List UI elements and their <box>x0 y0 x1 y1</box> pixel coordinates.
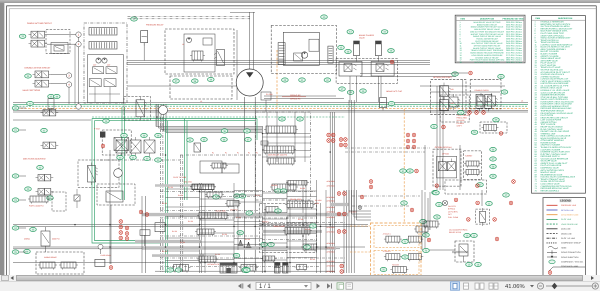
valve V33 <box>270 184 298 192</box>
callout pb6 <box>144 156 151 160</box>
valve V65b <box>406 254 423 262</box>
grey band 1 <box>142 213 349 216</box>
svg-text:PSI 350: PSI 350 <box>271 184 277 187</box>
testpoint TP8 <box>331 133 335 137</box>
testpoint TP27b <box>340 270 344 274</box>
testpoint TP31 <box>495 237 499 241</box>
accumulator A3 <box>380 98 387 111</box>
callout b6 <box>237 231 244 235</box>
relief RV2 <box>74 189 80 208</box>
dashed box center assy <box>271 26 336 74</box>
valve V54 <box>195 229 216 236</box>
svg-text:ATTACHMENT LINE: ATTACHMENT LINE <box>561 214 579 217</box>
svg-text:PILOT LINE: PILOT LINE <box>561 218 572 221</box>
svg-text:RV 3B: RV 3B <box>222 233 228 236</box>
valve V13 <box>371 62 394 77</box>
svg-text:ARM 3900: ARM 3900 <box>327 206 335 209</box>
testpoint TPq4 <box>509 201 513 205</box>
testpoint TP10 <box>331 139 335 143</box>
wire bundle <box>156 104 262 133</box>
wire <box>282 96 306 98</box>
svg-text:RELIEF 45 PSI: RELIEF 45 PSI <box>449 231 462 234</box>
valve V67 <box>422 221 440 229</box>
testpoint TP1 <box>469 71 473 75</box>
callout 27 <box>221 129 228 133</box>
pump P8 <box>187 38 192 43</box>
wire orange <box>350 226 370 252</box>
callout c62 <box>407 169 414 173</box>
svg-text:25 PSI RTN: 25 PSI RTN <box>448 210 458 213</box>
testpoint TP30 <box>467 218 471 222</box>
label cooler <box>449 229 468 235</box>
dashed box cooler <box>455 241 474 262</box>
collapsed side panel strip <box>0 3 5 275</box>
callout pb5 <box>130 155 137 159</box>
svg-text:ITEM: ITEM <box>535 17 540 20</box>
callout 40c <box>299 78 306 82</box>
testpoint TP17 <box>406 139 410 143</box>
vertical comb 1 <box>278 43 285 65</box>
svg-text:ARM 3900: ARM 3900 <box>327 265 335 268</box>
valve V1 <box>29 31 48 38</box>
svg-text:RV 3B: RV 3B <box>310 258 316 261</box>
callout 17 <box>131 17 138 21</box>
svg-text:ROTATE: ROTATE <box>392 263 399 266</box>
valve V35 <box>286 181 309 187</box>
callout b12 <box>233 253 240 257</box>
label test port <box>457 114 470 128</box>
dashed box option B <box>470 80 501 109</box>
callout b4 <box>246 211 253 215</box>
svg-text:PRESS RED: PRESS RED <box>457 117 468 120</box>
box row D <box>97 184 135 205</box>
small comp <box>261 141 268 145</box>
vertical comp bank <box>275 263 288 274</box>
dashed box red vlv <box>480 122 507 133</box>
svg-text:P1: P1 <box>248 152 250 155</box>
dashed box bypass <box>476 209 490 224</box>
zoom dropdown caret <box>530 285 534 287</box>
testpoint TP23 <box>337 212 341 216</box>
testpoint TPlm <box>101 144 105 148</box>
dashed box below block <box>170 76 232 99</box>
svg-text:DESCRIPTION: DESCRIPTION <box>480 18 495 21</box>
valve V11 <box>294 53 303 61</box>
callout 106 <box>503 193 510 197</box>
valve V53 <box>285 201 315 209</box>
callout b10 <box>167 268 174 272</box>
svg-text:TRAVEL 2SPD: TRAVEL 2SPD <box>273 225 286 228</box>
svg-text:PILOT CKT 600: PILOT CKT 600 <box>173 176 186 179</box>
callout 104 <box>475 262 482 266</box>
inner block <box>184 34 215 72</box>
svg-text:ARM 3900: ARM 3900 <box>327 211 335 214</box>
svg-text:DRAIN LINE: DRAIN LINE <box>561 232 572 235</box>
valve V8 <box>89 79 101 87</box>
testpoint TP11 <box>339 138 343 142</box>
testpoint TP7 <box>327 133 331 137</box>
callout 110 <box>401 201 408 205</box>
svg-text:PRESSURE LINE: PRESSURE LINE <box>561 204 577 207</box>
small comp2 <box>261 92 271 112</box>
testpoint TP5 <box>499 132 503 136</box>
page copy icon 2 <box>346 283 352 289</box>
wire <box>19 175 26 177</box>
valve V3 <box>54 46 64 52</box>
valve V36 <box>449 94 460 110</box>
testpoint TP24 <box>343 212 347 216</box>
callout 19 <box>103 119 110 123</box>
callout cc2 <box>201 137 208 141</box>
accumulator A1 <box>354 41 360 62</box>
dashed box option A <box>431 80 466 115</box>
svg-text:PSI MAX: PSI MAX <box>457 122 465 125</box>
svg-text:LS: LS <box>521 100 524 103</box>
enclosure dash wire <box>161 117 163 273</box>
svg-text:SPRING PS: SPRING PS <box>290 98 301 101</box>
stepped boxes <box>200 161 239 173</box>
accumulator A0 <box>141 31 148 46</box>
red micro labels <box>162 186 316 261</box>
callout c61 <box>400 169 407 173</box>
node 3 <box>66 73 71 78</box>
svg-text:ARM 3900: ARM 3900 <box>327 196 335 199</box>
solenoid dark <box>100 132 105 138</box>
valve V4 <box>33 71 52 78</box>
callout edge4 <box>12 226 19 230</box>
grey band 5 <box>452 251 468 253</box>
testpoint TP12 <box>344 138 348 142</box>
node 1 <box>76 32 81 37</box>
inner box grading <box>437 156 457 178</box>
valve V45 <box>38 262 57 270</box>
valve V9 <box>104 79 116 87</box>
svg-text:COMPONENT GROUP: COMPONENT GROUP <box>561 242 581 245</box>
callout 20 <box>27 101 34 105</box>
svg-text:HOSE: HOSE <box>561 246 567 249</box>
node 2 <box>76 42 81 47</box>
svg-text:ARM 3900: ARM 3900 <box>327 251 335 254</box>
valve V42 <box>464 170 481 177</box>
valve V18 <box>114 138 129 151</box>
svg-text:MAIN RELIEF 4200 PSI: MAIN RELIEF 4200 PSI <box>268 154 288 157</box>
svg-text:RV 4350: RV 4350 <box>315 199 322 202</box>
callout 25a <box>25 187 32 191</box>
callout 30 <box>297 117 304 121</box>
testpoint TP4 <box>482 111 486 115</box>
first page button <box>238 283 243 288</box>
last page button <box>327 283 332 288</box>
callout pb2 <box>141 133 148 137</box>
valve V52 <box>264 207 280 214</box>
page copy icon 1 <box>337 283 343 289</box>
svg-text:OIL COOLER BYPASS: OIL COOLER BYPASS <box>449 229 468 232</box>
svg-text:PILOT / LS LINE: PILOT / LS LINE <box>561 237 576 240</box>
testpoint TP26 <box>343 230 347 234</box>
valve V17 <box>136 97 147 120</box>
valve V37a <box>477 93 487 109</box>
callout 25b <box>47 196 54 200</box>
svg-text:PRESSURE RELIEF: PRESSURE RELIEF <box>146 24 164 27</box>
orange sub-box 1 <box>374 226 419 248</box>
pump P6 <box>96 58 101 63</box>
svg-text:ARM 3900: ARM 3900 <box>327 260 335 263</box>
svg-text:ARM 3900: ARM 3900 <box>327 185 335 188</box>
valve V10 <box>190 51 205 62</box>
callout b3 <box>280 189 287 193</box>
svg-text:LS: LS <box>182 43 185 46</box>
testpoint TP3 <box>475 111 479 115</box>
valve V20 <box>36 175 54 181</box>
callout 107b <box>423 233 430 237</box>
valve V58 <box>261 256 277 263</box>
valve V12 <box>339 62 362 77</box>
svg-text:OPTION (SPECIFIC): OPTION (SPECIFIC) <box>433 76 452 79</box>
callout 36 <box>54 94 61 98</box>
svg-text:PIPING CONNECTION: PIPING CONNECTION <box>561 251 581 254</box>
svg-text:CONTINUED LABEL: CONTINUED LABEL <box>561 265 579 268</box>
callout edge3 <box>12 198 19 202</box>
callout 108b <box>423 248 430 252</box>
callout 51b <box>192 79 199 83</box>
svg-text:P1: P1 <box>256 152 258 155</box>
callout b9 <box>244 268 251 272</box>
valve V30 <box>264 126 298 135</box>
callout b14 <box>304 245 311 249</box>
valve V43 <box>28 196 50 204</box>
wire <box>420 86 505 190</box>
testpoint TP18 <box>412 139 416 143</box>
svg-text:MAX FLOW ADJUSTED: MAX FLOW ADJUSTED <box>23 158 46 161</box>
dashed box turret <box>464 151 482 180</box>
testpoint TPr2 <box>476 184 480 188</box>
label oil filter <box>448 205 458 219</box>
dash box travel2 <box>259 226 316 253</box>
drain node <box>98 244 103 254</box>
wire L-corners <box>349 190 371 220</box>
accumulator A2 <box>376 41 382 62</box>
testpoint TP32 <box>410 208 414 212</box>
svg-text:OIL FLTR: OIL FLTR <box>448 205 456 208</box>
svg-text:3600 PSI: 3600 PSI <box>52 238 60 241</box>
green pilot wires <box>92 50 345 273</box>
svg-text:SINGLE ACTING CIRCUIT: SINGLE ACTING CIRCUIT <box>27 22 53 25</box>
valve V64b <box>406 236 423 244</box>
callout edge0 <box>12 106 19 110</box>
orange sub-box 2 <box>374 251 419 275</box>
valve V31 <box>262 146 296 155</box>
grey band 4 <box>152 254 204 257</box>
callout b15 <box>213 195 220 199</box>
pump P1 main <box>236 69 263 96</box>
two page view button <box>475 283 484 289</box>
callout c60b <box>432 190 439 194</box>
svg-text:CKT: CKT <box>448 213 452 216</box>
callout 40d <box>324 78 331 82</box>
callout edge2 <box>12 174 19 178</box>
callout b2 <box>275 189 282 193</box>
dashed box swing <box>36 252 84 274</box>
zoom in button <box>592 283 598 289</box>
valve V5 <box>33 80 52 87</box>
callout 22 <box>37 165 44 169</box>
svg-text:SWING BRAKE: SWING BRAKE <box>44 256 57 259</box>
callout 102c <box>471 233 478 237</box>
valve V49 <box>205 192 224 199</box>
svg-text:DESCRIPTION: DESCRIPTION <box>558 17 573 20</box>
testpoint TP5b <box>442 125 446 129</box>
comp vb <box>203 38 212 45</box>
bottom toolbar <box>0 281 600 291</box>
testpoint TP13 <box>339 143 343 147</box>
svg-text:BRAKE ACC CHG: BRAKE ACC CHG <box>386 90 402 93</box>
red labels bus <box>200 93 524 103</box>
callout 51c <box>208 77 215 81</box>
svg-text:ATTACH 2: ATTACH 2 <box>383 250 391 253</box>
testpoint stack A <box>119 220 123 240</box>
svg-text:PIPING DIRECTION: PIPING DIRECTION <box>561 256 579 259</box>
testpoint TP6 <box>415 169 419 173</box>
svg-text:DOUBLE ACTING CIRCUIT: DOUBLE ACTING CIRCUIT <box>25 67 52 70</box>
testpoint TP14 <box>344 143 348 147</box>
svg-text:ARM 3900: ARM 3900 <box>327 242 335 245</box>
pilot X valve a <box>438 159 446 171</box>
circle CA <box>159 106 168 115</box>
wire <box>143 43 145 61</box>
callout b5 <box>275 209 282 213</box>
svg-text:ARM 3900: ARM 3900 <box>327 180 335 183</box>
svg-text:24V: 24V <box>107 64 111 67</box>
valve V50 <box>225 201 241 208</box>
testpoint TP22 <box>343 192 347 196</box>
testpoint TP27 <box>340 264 344 268</box>
callout 102 <box>420 219 427 223</box>
comb bank 2 <box>89 42 117 50</box>
svg-text:ARM 3900: ARM 3900 <box>327 231 335 234</box>
svg-text:ARM 3900: ARM 3900 <box>327 200 335 203</box>
accumulator A5 <box>485 94 492 111</box>
component housing <box>52 192 66 211</box>
callout 29 <box>279 117 286 121</box>
callout pb7 <box>155 158 162 162</box>
testpoint TP2 <box>468 111 472 115</box>
svg-text:OPTION (SPECIAL): OPTION (SPECIAL) <box>435 146 452 149</box>
svg-text:VLV 3200: VLV 3200 <box>457 119 465 122</box>
dashed box lock <box>46 30 70 54</box>
testpoint TP16 <box>412 133 416 137</box>
node 5 <box>76 104 81 109</box>
comp center <box>194 143 201 152</box>
wire <box>47 35 76 45</box>
svg-text:ITEM: ITEM <box>460 18 465 21</box>
callout 46 <box>388 102 395 106</box>
dashed box return <box>445 180 487 194</box>
testpoint TP9 <box>327 139 331 143</box>
svg-text:P TEST: P TEST <box>94 128 101 131</box>
svg-text:RETURN FLTR: RETURN FLTR <box>208 263 220 266</box>
strainer S2 <box>246 242 252 248</box>
inner box center <box>283 32 319 65</box>
callout c59 <box>490 174 497 178</box>
callout pb1 <box>121 133 128 137</box>
grey band 7 <box>330 203 349 206</box>
valve V61 <box>295 265 309 272</box>
callout pb3 <box>155 133 162 137</box>
svg-text:LOAD SENSE LINE: LOAD SENSE LINE <box>561 223 579 226</box>
svg-text:P1: P1 <box>212 152 214 155</box>
callout 41 <box>347 30 354 34</box>
valve V23 <box>106 191 123 202</box>
zoom out button <box>537 283 543 289</box>
valve V7 <box>106 67 117 74</box>
dashed box grading <box>433 149 461 186</box>
valve V38 <box>482 125 499 133</box>
callout 34 <box>25 74 32 78</box>
svg-text:SWING: SWING <box>24 238 31 241</box>
svg-text:ARM 3900: ARM 3900 <box>327 270 335 273</box>
grey band 3 <box>262 230 322 233</box>
wire <box>19 251 26 253</box>
svg-text:ARM: ARM <box>315 202 319 205</box>
wire <box>142 196 146 273</box>
wire <box>19 199 26 201</box>
svg-text:BOOM 3800: BOOM 3800 <box>216 210 226 213</box>
horizontal scrollbar <box>0 275 600 281</box>
pump P7 <box>102 58 107 63</box>
svg-text:TRAVEL 3B00: TRAVEL 3B00 <box>290 198 302 201</box>
grey band 6 <box>155 184 214 187</box>
svg-text:CASE DRAIN: CASE DRAIN <box>101 254 112 257</box>
callout b11 <box>175 268 182 272</box>
valve V34 <box>190 184 216 191</box>
svg-text:ARM 3900: ARM 3900 <box>327 216 335 219</box>
dashed box accum <box>336 59 397 84</box>
testpoint TPr4 <box>476 201 480 205</box>
dashed box valve block <box>165 29 234 74</box>
page number box <box>256 282 311 290</box>
svg-text:ARM 3900: ARM 3900 <box>327 226 335 229</box>
svg-text:RV 3B: RV 3B <box>172 230 178 233</box>
wire <box>452 73 468 115</box>
testpoint TPr1 <box>435 184 439 188</box>
node 4 <box>66 82 71 87</box>
callout b1 <box>239 194 246 198</box>
callout 99 <box>433 191 440 195</box>
callout 107 <box>402 239 409 243</box>
callout 25 <box>30 227 37 231</box>
testpoint TP20 <box>412 145 416 149</box>
callout 103 <box>466 262 473 266</box>
testpoint stack B <box>125 226 129 240</box>
svg-text:RV 3B: RV 3B <box>215 253 221 256</box>
callout 40 <box>321 15 328 19</box>
callout 35 <box>48 94 55 98</box>
callout 49 <box>501 90 508 94</box>
svg-text:PORT A 3200 PSI: PORT A 3200 PSI <box>29 205 44 208</box>
valve small group <box>48 99 54 113</box>
callout cc3 <box>221 137 228 141</box>
valve V15 <box>440 97 451 114</box>
testpoint TP15 <box>406 133 410 137</box>
wire <box>422 190 482 250</box>
wire <box>19 129 26 131</box>
svg-text:SEC 3700: SEC 3700 <box>184 181 192 184</box>
callout 108 <box>402 255 409 259</box>
callout edge5 <box>12 250 19 254</box>
callout c58 <box>490 164 497 168</box>
svg-text:RV 3B: RV 3B <box>188 220 194 223</box>
svg-text:P2 FRN: P2 FRN <box>266 93 273 96</box>
